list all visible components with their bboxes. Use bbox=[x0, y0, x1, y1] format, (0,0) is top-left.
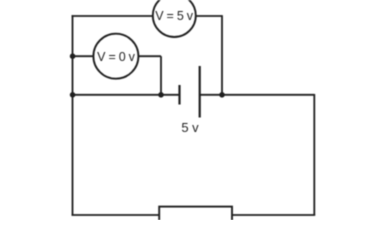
wire voltmeter V0 left stub bbox=[73, 55, 95, 57]
svg-text:5 v: 5 v bbox=[181, 120, 199, 135]
wire middle left to battery bbox=[73, 94, 179, 96]
junction node A (left, meter tap) bbox=[70, 53, 76, 59]
svg-text:V = 0 v: V = 0 v bbox=[97, 50, 136, 64]
wire right drop to node bbox=[221, 15, 223, 95]
wire bottom left bbox=[72, 214, 160, 216]
voltmeter U2 circle bbox=[93, 34, 138, 79]
battery B1 positive plate bbox=[199, 66, 201, 118]
wire top-right horizontal bbox=[195, 15, 223, 17]
svg-text:V = 5 v: V = 5 v bbox=[155, 9, 194, 23]
wire voltmeter V0 right stub bbox=[138, 55, 162, 57]
wire top-left horizontal bbox=[72, 15, 154, 17]
junction node C (meter drop on rail) bbox=[158, 92, 164, 98]
battery B1 negative plate bbox=[178, 85, 180, 105]
voltmeter U1 circle bbox=[153, 0, 196, 37]
wire left vertical bbox=[72, 15, 74, 215]
junction node B (left, main rail) bbox=[70, 92, 76, 98]
wire voltmeter V0 drop bbox=[160, 56, 162, 95]
wire battery to right node bbox=[201, 94, 315, 96]
junction node D (battery right) bbox=[219, 92, 225, 98]
resistor R1 (bottom box, clipped) bbox=[159, 207, 232, 227]
wire bottom right bbox=[232, 214, 315, 216]
wire right vertical bbox=[313, 94, 315, 215]
